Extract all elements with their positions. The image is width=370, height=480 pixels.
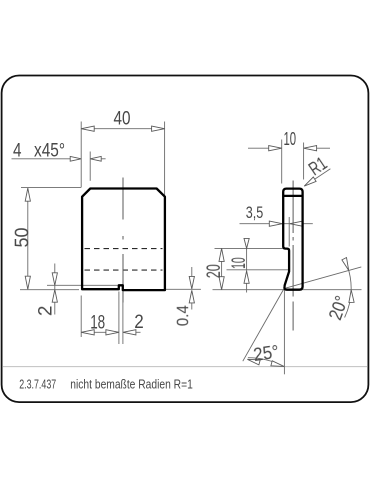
dimension 0.4 arrow upper: [189, 276, 194, 289]
25 degree vertical reference line: [283, 289, 285, 375]
punch blade outline: [283, 189, 302, 290]
25 degree arrow right: [271, 361, 284, 367]
right view dimension 20 top extension: [215, 247, 283, 249]
bottom surface extension line left: [20, 289, 79, 291]
right view dimension 20 arrow top: [219, 248, 224, 261]
20 degree horizontal extension: [303, 289, 362, 291]
dimension 0.4 arrow lower: [189, 290, 194, 303]
chamfer dimension 4 x45 text: [13, 140, 65, 162]
right view dimension 10 lower extension: [227, 269, 289, 271]
notch left extension line: [118, 292, 120, 345]
chamfer arrow right-pointing: [70, 156, 81, 161]
dimension 40 arrow left: [81, 126, 94, 131]
dimension 2 left arrow upper: [52, 273, 57, 286]
dimension 50 top extension line: [21, 186, 81, 188]
notch right extension line: [122, 292, 124, 345]
svg-text:25°: 25°: [252, 341, 280, 365]
svg-text:nicht bemaßte Radien R=1: nicht bemaßte Radien R=1: [70, 377, 193, 392]
chamfer arrow tail: [101, 158, 105, 160]
dimension 18 line: [81, 331, 119, 333]
svg-text:2: 2: [134, 311, 144, 333]
dimension 50 line: [27, 188, 29, 289]
svg-text:2: 2: [35, 306, 57, 317]
dimension 40 extension line left: [80, 122, 82, 188]
right view dimension 10 extension left: [281, 140, 283, 184]
R1 arrowhead: [304, 177, 316, 186]
right view dimension 10 line left tail: [248, 147, 269, 149]
dimension 2 bottom arrow: [123, 330, 136, 335]
svg-text:x45°: x45°: [34, 140, 65, 162]
dimension 3,5 line: [240, 223, 313, 225]
dimension 2 left line: [54, 264, 56, 315]
25 degree arc: [248, 358, 284, 367]
right view dimension 10 extension right: [303, 143, 305, 180]
20 degree arrow lower: [349, 290, 354, 303]
right view bottom extension: [213, 289, 285, 291]
dimension 50 arrow bottom: [25, 276, 30, 289]
dimension 0.4 extension line: [166, 288, 201, 290]
svg-text:40: 40: [114, 107, 131, 129]
hidden line lower: [85, 269, 163, 271]
right view dimension 10 lower arrow upper: [244, 238, 249, 248]
centerline left view: [122, 178, 124, 303]
title text: [19, 377, 193, 392]
right view dimension 10 lower line: [246, 239, 248, 293]
svg-text:3,5: 3,5: [246, 203, 264, 222]
dimension 2 bottom tail: [136, 331, 141, 333]
dimension 18 arrow left: [81, 330, 94, 335]
20 degree arc: [344, 259, 351, 317]
svg-text:50: 50: [11, 227, 33, 247]
svg-text:18: 18: [90, 312, 105, 334]
chamfer extension line: [89, 152, 91, 181]
punch blade cap line: [283, 195, 302, 197]
25 degree arrow left: [247, 359, 260, 365]
centerline right view: [292, 181, 294, 331]
20 degree reference line: [284, 267, 361, 289]
dimension 3,5 arrow right: [290, 221, 303, 226]
dimension 50 arrow top: [25, 188, 30, 201]
hidden line upper: [85, 248, 163, 250]
20 degree arrow upper: [342, 258, 349, 271]
svg-text:10: 10: [284, 129, 297, 149]
dimension 3,5 arrow left: [269, 221, 282, 226]
R1 leader line: [304, 169, 330, 186]
25 degree slant line: [243, 289, 284, 362]
svg-text:4: 4: [13, 140, 22, 162]
chamfer leader line: [12, 158, 71, 160]
dimension 0.4 line upper: [191, 267, 193, 277]
dimension 40 extension line right: [164, 122, 166, 197]
right view dimension 10 line right tail: [317, 147, 330, 149]
dimension 18 extension line left: [80, 296, 82, 338]
dimension 40 arrow right: [152, 126, 165, 131]
dimension 40 line: [81, 128, 164, 130]
right view dimension 10 lower arrow lower: [244, 271, 249, 283]
svg-text:0.4: 0.4: [174, 305, 192, 326]
dimension 3,5 extension line: [288, 217, 290, 247]
dimension 18 arrow right: [106, 330, 119, 335]
right view dimension 20 arrow bottom: [219, 277, 224, 290]
svg-text:2.3.7.437: 2.3.7.437: [19, 378, 56, 392]
notch top extension line: [47, 284, 118, 286]
svg-text:20: 20: [203, 264, 225, 278]
chamfer arrow left-pointing: [90, 156, 101, 161]
right view dimension 10 arrow left: [269, 146, 282, 151]
die block outline: [82, 189, 165, 291]
dimension 2 left arrow lower: [52, 290, 57, 303]
dimension 0.4 line lower: [191, 303, 193, 310]
right view dimension 10 arrow right: [304, 146, 317, 151]
svg-text:10: 10: [228, 257, 250, 269]
right view dimension 20 line: [221, 248, 223, 289]
